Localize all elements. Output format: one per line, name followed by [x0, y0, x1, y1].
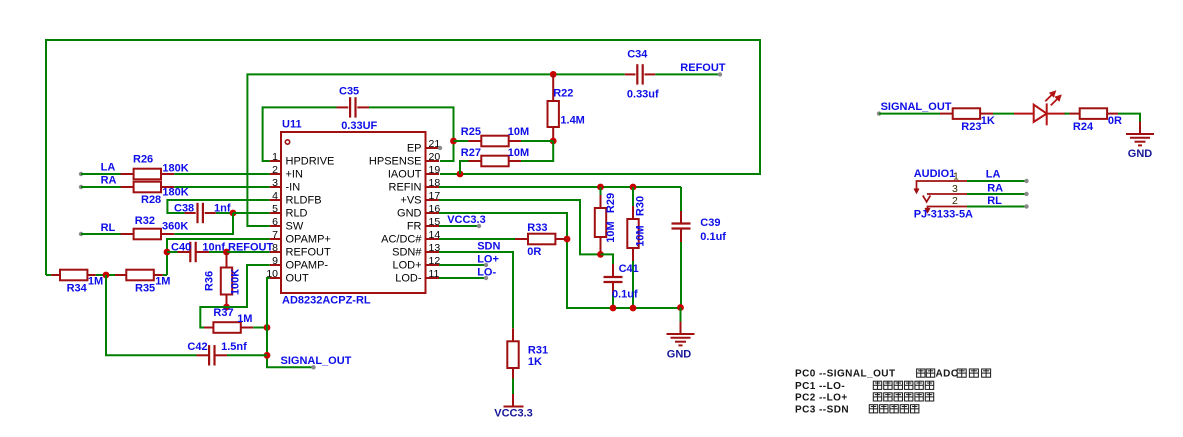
wire R28 to -IN pin3	[174, 186, 269, 188]
svg-text:LA: LA	[986, 168, 1001, 180]
svg-text:R27: R27	[461, 147, 481, 159]
junction R34/R35/C42	[103, 272, 110, 279]
junction R29 bottom / +VS / C41	[597, 251, 604, 258]
ground GND (rail)	[680, 308, 682, 322]
svg-text:R37: R37	[213, 307, 233, 319]
svg-text:REFOUT: REFOUT	[680, 62, 726, 74]
resistor R28	[121, 186, 134, 188]
svg-text:0R: 0R	[527, 246, 541, 258]
junction C35/R25/HPSENSE	[450, 138, 457, 145]
svg-text:4: 4	[272, 190, 278, 202]
svg-text:SDN#: SDN#	[392, 246, 422, 258]
resistor R35	[115, 274, 126, 276]
svg-text:EP: EP	[407, 142, 422, 154]
svg-text:9: 9	[272, 255, 278, 267]
svg-text:10M: 10M	[508, 147, 529, 159]
wire LOD- pin11 stub	[439, 277, 486, 279]
svg-text:RLDFB: RLDFB	[286, 194, 322, 206]
wire VCC3.3 pin15 stub	[439, 225, 479, 227]
svg-text:14: 14	[429, 229, 441, 241]
wire C40 to REFOUT pin8 junction	[209, 251, 227, 253]
svg-text:RLD: RLD	[286, 207, 308, 219]
wire C42 right	[227, 354, 267, 356]
pin 1 HPDRIVE	[270, 160, 281, 162]
svg-text:R28: R28	[141, 194, 161, 206]
wire C35 to HPSENSE pin20	[369, 107, 454, 161]
power VCC3.3 (below R31)	[512, 394, 514, 407]
resistor R33	[515, 238, 528, 240]
ground GND (LED branch)	[1139, 122, 1141, 135]
svg-text:3: 3	[272, 177, 278, 189]
pin 3 -IN	[270, 186, 281, 188]
svg-text:7: 7	[272, 229, 278, 241]
svg-text:8: 8	[272, 242, 278, 254]
svg-text:C40: C40	[171, 242, 191, 254]
svg-text:SIGNAL_OUT: SIGNAL_OUT	[281, 355, 352, 367]
capacitor C40	[167, 251, 178, 253]
wire C38 to RLD junction	[216, 212, 233, 214]
svg-text:180K: 180K	[162, 186, 188, 198]
svg-text:FR: FR	[407, 220, 422, 232]
svg-text:C35: C35	[339, 85, 359, 97]
wire LOD+ pin12 stub	[439, 264, 486, 266]
pin 21 unconnected end	[438, 146, 442, 150]
svg-text:0R: 0R	[1108, 115, 1122, 127]
junction C41 bottom / rail	[610, 305, 617, 312]
pin 14 AC/DC#	[426, 238, 440, 240]
svg-text:0.33uf: 0.33uf	[627, 89, 659, 101]
wire OPAMP+ pin7 to C40 node	[167, 239, 270, 275]
pin 6 SW	[270, 225, 281, 227]
resistor R36	[226, 252, 228, 268]
svg-text:R34: R34	[67, 282, 88, 294]
wire RLDFB pin4 to C38	[167, 200, 269, 213]
svg-text:16: 16	[429, 203, 441, 215]
svg-text:0.33UF: 0.33UF	[341, 120, 377, 132]
svg-text:ADC: ADC	[936, 369, 959, 380]
pin 5 RLD	[270, 212, 281, 214]
wire R37 to OUT vertical	[253, 327, 267, 329]
svg-text:13: 13	[429, 242, 441, 254]
wire SDN# pin13 to R31	[439, 252, 513, 328]
wire SIGNAL_OUT to R23	[879, 113, 940, 115]
junction R36 bottom / R37 / OPAMP-	[223, 304, 230, 311]
wire C34 to REFOUT net stub	[655, 73, 720, 75]
svg-text:360K: 360K	[162, 220, 188, 232]
svg-text:+VS: +VS	[400, 194, 421, 206]
svg-text:RL: RL	[987, 195, 1002, 207]
resistor R24	[1070, 113, 1080, 115]
node REFOUT	[718, 72, 722, 76]
pin 16 GND	[426, 212, 440, 214]
svg-text:LOD+: LOD+	[392, 259, 421, 271]
svg-text:PJ-3133-5A: PJ-3133-5A	[914, 208, 973, 220]
svg-text:12: 12	[429, 255, 441, 267]
wire R26 to +IN pin2	[174, 173, 269, 175]
capacitor C38	[196, 203, 198, 223]
resistor R30	[632, 187, 634, 206]
junction REFIN/R29	[597, 184, 604, 191]
wire GND pin16 down to ground rail	[439, 213, 681, 308]
svg-text:OPAMP-: OPAMP-	[286, 259, 329, 271]
resistor R34	[46, 274, 51, 276]
svg-text:PC0 --SIGNAL_OUT: PC0 --SIGNAL_OUT	[795, 369, 896, 380]
pin 2 +IN	[270, 173, 281, 175]
svg-text:R26: R26	[133, 153, 153, 165]
capacitor C35	[349, 97, 351, 117]
junction on IAOUT row	[457, 171, 464, 178]
svg-text:R22: R22	[553, 87, 573, 99]
svg-text:R32: R32	[135, 215, 155, 227]
capacitor C34	[636, 64, 638, 84]
resistor R26	[121, 173, 134, 175]
svg-text:R23: R23	[961, 121, 981, 133]
svg-text:10M: 10M	[508, 126, 529, 138]
resistor R22	[552, 74, 554, 101]
pin 9 OPAMP-	[270, 264, 281, 266]
junction R37 / OUT net	[264, 324, 271, 331]
junction REFIN/R30	[630, 184, 637, 191]
svg-text:AD8232ACPZ-RL: AD8232ACPZ-RL	[282, 295, 371, 307]
svg-text:LOD-: LOD-	[395, 272, 422, 284]
node RA	[79, 185, 83, 189]
wire junction to REFOUT pin8	[227, 251, 270, 253]
svg-text:1M: 1M	[88, 276, 103, 288]
svg-text:20: 20	[429, 151, 441, 163]
svg-text:0.1uf: 0.1uf	[612, 288, 638, 300]
svg-text:11: 11	[429, 268, 440, 280]
resistor R25	[454, 140, 469, 142]
svg-text:HPDRIVE: HPDRIVE	[286, 155, 335, 167]
svg-text:C34: C34	[627, 49, 648, 61]
wire R36 bottom to R37	[200, 307, 226, 328]
svg-text:LA: LA	[101, 162, 116, 174]
svg-text:5: 5	[272, 203, 278, 215]
pin 8 REFOUT	[270, 251, 281, 253]
pin 18 REFIN	[426, 186, 440, 188]
node SIGNAL_OUT (LED branch)	[877, 111, 881, 115]
resistor R31	[512, 328, 514, 341]
wire OPAMP- pin9 to R36 bottom	[227, 265, 270, 307]
svg-text:REFIN: REFIN	[389, 181, 422, 193]
junction C40 left / R35 / OPAMP+	[164, 249, 171, 256]
wire R27 to R22 bottom	[521, 141, 553, 161]
svg-text:SDN: SDN	[477, 241, 500, 253]
junction R33/GND net	[564, 236, 571, 243]
svg-text:1.4M: 1.4M	[560, 115, 584, 127]
svg-text:1: 1	[272, 151, 278, 163]
svg-text:6: 6	[272, 216, 278, 228]
resistor R29	[600, 187, 602, 195]
pin 15 FR	[426, 225, 440, 227]
svg-text:RA: RA	[987, 183, 1003, 195]
svg-text:REFOUT: REFOUT	[286, 246, 332, 258]
svg-text:RL: RL	[101, 222, 116, 234]
pin 7 OPAMP+	[270, 238, 281, 240]
svg-text:18: 18	[429, 177, 441, 189]
svg-text:GND: GND	[1128, 148, 1153, 160]
pin 19 IAOUT	[426, 173, 440, 175]
junction R30 bottom / rail	[630, 305, 637, 312]
junction R22 bottom / R25 / R27	[550, 138, 557, 145]
junction ground rail / GND symbol	[677, 304, 684, 311]
resistor R32	[121, 233, 134, 235]
svg-text:3: 3	[952, 183, 958, 195]
resistor R23	[940, 113, 953, 115]
junction C40/R36/REFOUT	[223, 249, 230, 256]
wire RL to R32	[81, 233, 121, 235]
svg-text:1: 1	[953, 170, 959, 182]
wire RA to R28	[81, 186, 121, 188]
svg-text:1M: 1M	[155, 276, 170, 288]
resistor R37	[204, 327, 213, 329]
wire outer loop IAOUT to R34 (top)	[46, 40, 760, 275]
svg-text:100K: 100K	[230, 269, 242, 295]
svg-text:2: 2	[272, 164, 278, 176]
pin 10 OUT	[270, 277, 281, 279]
svg-text:R31: R31	[528, 345, 548, 357]
svg-text:HPSENSE: HPSENSE	[369, 155, 422, 167]
wire C42 left	[106, 275, 197, 355]
wire SW pin6 to REFOUT row	[247, 74, 624, 226]
svg-text:AUDIO1: AUDIO1	[914, 168, 956, 180]
svg-text:C39: C39	[700, 217, 720, 229]
IC U11 AD8232ACPZ-RL	[281, 132, 426, 293]
wire OUT pin10 down to SIGNAL_OUT	[267, 278, 314, 367]
svg-text:R33: R33	[527, 222, 547, 234]
svg-text:VCC3.3: VCC3.3	[494, 408, 533, 420]
wire R27 to IAOUT junction	[460, 161, 469, 174]
resistor R27	[469, 160, 482, 162]
wire HPDRIVE pin1 to C35	[263, 107, 337, 161]
svg-text:R30: R30	[635, 196, 647, 216]
capacitor C39	[680, 187, 682, 211]
pin 4 RLDFB	[270, 199, 281, 201]
pin 11 LOD-	[426, 277, 440, 279]
capacitor C42	[197, 354, 209, 356]
wire R34 to R35	[96, 274, 115, 276]
capacitor C41	[601, 254, 614, 264]
svg-text:OUT: OUT	[286, 272, 310, 284]
svg-text:SW: SW	[286, 220, 304, 232]
wire R23 to LED D1	[993, 113, 1014, 115]
svg-text:GND: GND	[397, 207, 422, 219]
pin 17 +VS	[426, 199, 440, 201]
svg-text:C41: C41	[619, 263, 639, 275]
pin 20 HPSENSE	[426, 160, 440, 162]
wire +VS to C41 node	[439, 200, 601, 254]
wire LED to R24	[1065, 113, 1070, 115]
svg-text:PC3 --SDN: PC3 --SDN	[795, 404, 849, 415]
svg-text:+IN: +IN	[286, 168, 303, 180]
svg-text:C38: C38	[174, 202, 194, 214]
svg-text:LO+: LO+	[477, 254, 499, 266]
svg-text:RA: RA	[101, 175, 117, 187]
pin 13 SDN#	[426, 251, 440, 253]
LED D1	[1014, 113, 1034, 115]
node RL	[79, 232, 83, 236]
svg-text:R24: R24	[1073, 121, 1094, 133]
wire R35 to C40 node	[163, 274, 167, 276]
svg-text:10M: 10M	[635, 225, 647, 246]
svg-text:1K: 1K	[981, 115, 995, 127]
wire R32 to RLD junction	[174, 213, 233, 234]
svg-text:10: 10	[266, 268, 278, 280]
svg-text:R36: R36	[204, 271, 216, 291]
svg-text:U11: U11	[282, 119, 302, 131]
node SIGNAL_OUT	[311, 365, 315, 369]
junction RLD/C38/R32	[230, 210, 237, 217]
node LA	[79, 172, 83, 176]
svg-text:C42: C42	[187, 341, 207, 353]
svg-text:15: 15	[429, 216, 441, 228]
junction C42 / OUT net	[264, 352, 271, 359]
svg-text:VCC3.3: VCC3.3	[447, 214, 486, 226]
junction REFOUT row / R22	[550, 71, 557, 78]
svg-text:10M: 10M	[605, 221, 617, 242]
svg-text:2: 2	[952, 195, 958, 207]
node VCC3.3 at pin15	[477, 224, 481, 228]
pin 21 EP	[426, 147, 440, 149]
svg-text:R35: R35	[135, 282, 155, 294]
pin 12 LOD+	[426, 264, 440, 266]
wire RLD pin5	[233, 212, 270, 214]
svg-text:17: 17	[429, 190, 441, 202]
svg-text:0.1uf: 0.1uf	[700, 231, 726, 243]
svg-text:19: 19	[429, 164, 441, 176]
svg-text:IAOUT: IAOUT	[388, 168, 422, 180]
wire R24 to GND	[1118, 114, 1140, 122]
svg-text:PC2 --LO+: PC2 --LO+	[795, 392, 848, 403]
wire AC/DC# pin14 to R33	[439, 238, 515, 240]
wire REFIN row	[439, 186, 681, 188]
svg-text:AC/DC#: AC/DC#	[381, 233, 422, 245]
svg-text:1.5nf: 1.5nf	[221, 341, 247, 353]
svg-text:R29: R29	[605, 193, 617, 213]
svg-text:R25: R25	[461, 126, 481, 138]
svg-text:GND: GND	[667, 349, 692, 361]
svg-text:-IN: -IN	[286, 181, 301, 193]
svg-text:PC1 --LO-: PC1 --LO-	[795, 381, 845, 392]
svg-text:1K: 1K	[528, 356, 542, 368]
svg-text:180K: 180K	[162, 162, 188, 174]
svg-text:SIGNAL_OUT: SIGNAL_OUT	[881, 101, 952, 113]
svg-text:1M: 1M	[237, 313, 252, 325]
svg-text:OPAMP+: OPAMP+	[286, 233, 331, 245]
wire LA to R26	[81, 173, 121, 175]
